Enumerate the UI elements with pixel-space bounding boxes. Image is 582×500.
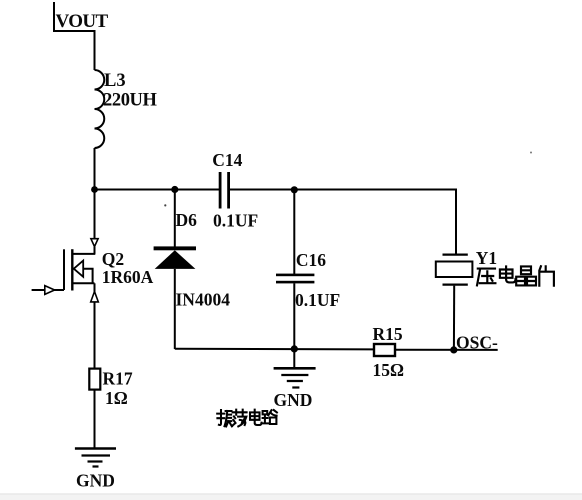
arrow (hollow, down) on drain xyxy=(91,239,98,247)
node A junction xyxy=(91,186,98,193)
svg-text:1Ω: 1Ω xyxy=(105,388,128,408)
svg-text:OSC-: OSC- xyxy=(456,333,498,353)
svg-text:IN4004: IN4004 xyxy=(176,290,231,310)
diode D6 xyxy=(154,190,196,349)
bottom plate xyxy=(276,281,314,284)
svg-text:C16: C16 xyxy=(296,250,326,270)
svg-text:GND: GND xyxy=(274,390,313,410)
wire source to R17 xyxy=(94,302,96,369)
ground (left) xyxy=(75,449,116,467)
gate bar xyxy=(63,249,65,290)
svg-text:R17: R17 xyxy=(103,369,133,389)
svg-text:220UH: 220UH xyxy=(103,91,158,111)
bottom plate xyxy=(443,284,468,286)
wire node C down to C16 xyxy=(293,190,295,274)
电 xyxy=(250,410,262,425)
crystal body rectangle xyxy=(436,262,473,278)
resistor R17 xyxy=(89,369,100,390)
channel bar xyxy=(71,249,73,290)
node C junction (C16 tap) xyxy=(291,186,298,193)
node D junction (C16/ground tap) xyxy=(291,345,298,352)
capacitor C16 xyxy=(276,190,314,369)
top plate xyxy=(443,254,468,256)
inductor L3 xyxy=(95,70,105,148)
top plate xyxy=(276,274,314,277)
wire top rail left segment xyxy=(95,189,220,191)
wire source down xyxy=(94,283,96,292)
transistor Q2 xyxy=(32,190,99,302)
振 xyxy=(217,410,232,426)
gate lead wire xyxy=(32,289,64,291)
svg-text:VOUT: VOUT xyxy=(56,11,109,32)
svg-text:Y1: Y1 xyxy=(476,248,497,268)
source horizontal xyxy=(72,282,94,284)
svg-text:R15: R15 xyxy=(373,324,403,344)
svg-text:Q2: Q2 xyxy=(102,249,124,269)
arrow (hollow, right) on gate lead xyxy=(45,286,55,295)
wire body to source corner xyxy=(83,269,92,284)
svg-text:GND: GND xyxy=(76,471,115,491)
wire bottom rail right segment xyxy=(395,349,498,351)
电 xyxy=(500,266,516,282)
svg-text:L3: L3 xyxy=(104,71,126,91)
wire drain from node A xyxy=(94,190,96,239)
arrow (hollow, up) on source xyxy=(91,292,99,302)
label 压电晶片 (piezoelectric crystal), drawn strokes xyxy=(477,266,554,285)
svg-text:C14: C14 xyxy=(212,150,242,170)
wire bottom rail left segment xyxy=(175,348,374,351)
crystal Y1 xyxy=(436,255,473,350)
wire C16 to bottom rail and ground xyxy=(293,283,295,368)
svg-text:0.1UF: 0.1UF xyxy=(295,290,340,310)
resistor R15 xyxy=(374,344,395,356)
speck artifacts from scan xyxy=(164,204,166,206)
svg-text:15Ω: 15Ω xyxy=(373,360,405,380)
svg-text:D6: D6 xyxy=(176,210,198,230)
荡 xyxy=(233,410,247,427)
svg-text:1R60A: 1R60A xyxy=(102,267,154,287)
node B junction (D6 tap) xyxy=(171,186,178,193)
晶 xyxy=(516,266,536,285)
capacitor C14 xyxy=(219,172,230,209)
svg-text:0.1UF: 0.1UF xyxy=(213,211,258,231)
node E junction (OSC) xyxy=(450,346,457,353)
wire L3 to node A xyxy=(94,148,96,190)
wire D6 to bottom rail xyxy=(174,269,176,349)
label 振荡电路 (oscillator circuit), drawn strokes xyxy=(217,410,277,427)
片 xyxy=(539,266,554,285)
wire Y1 bottom to OSC node xyxy=(453,286,455,350)
bottom scan edge strip xyxy=(0,493,582,494)
wire VOUT terminal bracket xyxy=(54,2,95,70)
压 xyxy=(477,269,495,286)
路 xyxy=(262,410,277,424)
body arrow (hollow, pointing left) xyxy=(74,261,83,277)
anode triangle (filled, pointing up) xyxy=(155,250,196,269)
wire node B down to D6 xyxy=(174,190,176,247)
cathode bar xyxy=(154,246,196,250)
wire top rail right segment, corner down to Y1 xyxy=(230,190,456,254)
wire R17 to ground xyxy=(94,390,96,449)
drain horizontal xyxy=(72,253,95,255)
ground (middle) xyxy=(274,368,316,387)
